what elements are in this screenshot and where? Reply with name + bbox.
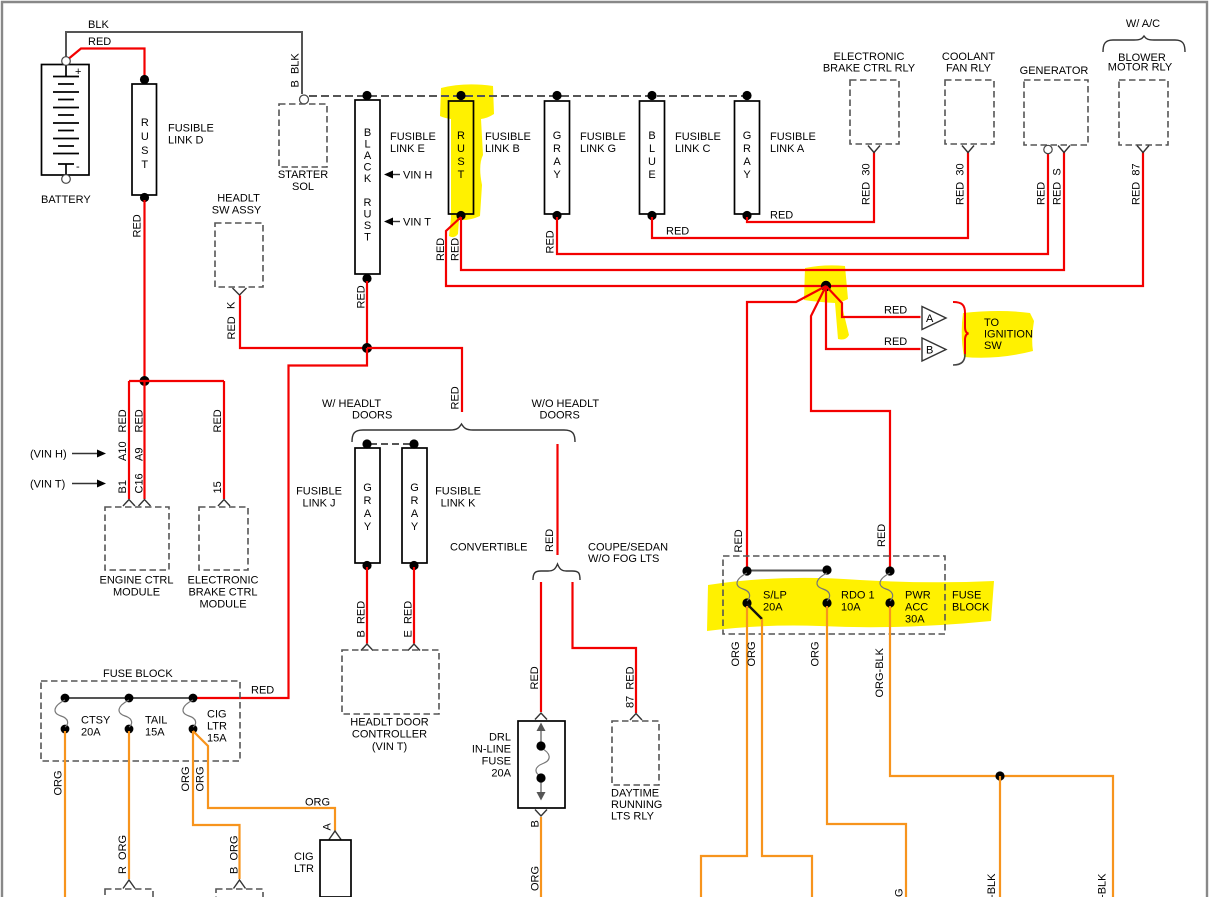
svg-text:FUSIBLE: FUSIBLE: [770, 131, 816, 143]
junction node on org-blk wire: [995, 771, 1004, 780]
svg-text:RED: RED: [134, 409, 146, 432]
svg-text:T: T: [364, 232, 371, 244]
pin B of headlt door controller: [361, 644, 373, 651]
wire RED link B to generator pin: [450, 153, 1065, 271]
svg-text:Y: Y: [411, 521, 419, 533]
wire BLK battery to starter sol: [66, 19, 302, 94]
svg-text:RED: RED: [529, 666, 541, 689]
node top of link A: [742, 91, 751, 100]
svg-text:(VIN T): (VIN T): [30, 479, 65, 491]
svg-text:RED: RED: [876, 524, 888, 547]
pin B lower box: [234, 880, 246, 889]
svg-text:RED 30: RED 30: [955, 163, 967, 205]
svg-text:A: A: [926, 313, 934, 325]
svg-text:RED: RED: [770, 210, 793, 222]
svg-text:B1: B1: [117, 480, 129, 493]
node bottom of link J: [362, 561, 371, 570]
svg-text:T: T: [141, 159, 148, 171]
svg-text:A: A: [553, 156, 561, 168]
svg-text:RED: RED: [212, 409, 224, 432]
wire RED junction to connector B: [826, 286, 921, 349]
svg-text:Y: Y: [743, 169, 751, 181]
svg-text:COUPE/SEDAN: COUPE/SEDAN: [588, 542, 668, 554]
svg-text:B: B: [926, 345, 933, 357]
main junction node: [821, 281, 831, 291]
dashed box below cig ltr wire: [216, 889, 263, 897]
highlighter mark over TO IGNITION SW: [962, 311, 1034, 358]
black jumper at S/LP output: [747, 604, 762, 619]
node top of link G: [552, 91, 561, 100]
headlt doors option brace: [322, 398, 599, 442]
wire RED link A to electronic brake ctrl rly: [747, 153, 874, 223]
pin A10 B1 of engine ctrl module: [117, 409, 135, 506]
svg-text:BLOCK: BLOCK: [952, 602, 990, 614]
svg-text:DRL: DRL: [489, 732, 511, 744]
node top of link B: [456, 91, 465, 100]
battery: [41, 65, 91, 207]
svg-text:LINK J: LINK J: [302, 498, 335, 510]
svg-text:15A: 15A: [207, 733, 227, 745]
svg-text:ORG: ORG: [180, 766, 192, 791]
wire ORG S/LP jumper down right: [746, 619, 812, 897]
svg-text:STARTER: STARTER: [278, 169, 328, 181]
svg-text:E RED: E RED: [403, 601, 415, 638]
svg-text:20A: 20A: [763, 602, 783, 614]
svg-text:ORG: ORG: [730, 641, 742, 666]
svg-text:G: G: [363, 482, 372, 494]
node top of link E: [362, 91, 371, 100]
svg-text:RED: RED: [117, 409, 129, 432]
svg-text:HEADLT: HEADLT: [217, 193, 260, 205]
W/ A/C brace: [1103, 18, 1185, 52]
wire RED link K to headlt door controller: [403, 567, 415, 644]
wire RED link G to generator terminal: [545, 154, 1049, 254]
svg-text:ORG: ORG: [894, 888, 906, 897]
svg-text:VIN H: VIN H: [403, 170, 432, 182]
VIN H arrow left: [30, 449, 106, 461]
wire ORG CIG LTR fuse to cig ltr: [193, 731, 335, 831]
svg-text:CONVERTIBLE: CONVERTIBLE: [450, 542, 527, 554]
svg-text:R: R: [457, 130, 465, 142]
svg-text:ACC: ACC: [905, 602, 928, 614]
headlt door controller: [342, 650, 439, 753]
highlighter mark over fusible link B: [440, 84, 494, 237]
wire RED link E bottom to junction: [356, 281, 368, 348]
node top of link C: [647, 91, 656, 100]
wire RED junction to connector A: [826, 286, 921, 317]
svg-text:FUSIBLE: FUSIBLE: [296, 486, 342, 498]
pin A9 C16 of engine ctrl module: [134, 409, 151, 506]
node bottom of fusible link D: [140, 193, 149, 202]
svg-text:R: R: [743, 143, 751, 155]
cig ltr: [294, 840, 351, 897]
svg-text:R: R: [141, 117, 149, 129]
node bottom of link C: [647, 211, 656, 220]
svg-text:RED S: RED S: [1052, 168, 1064, 205]
svg-text:B: B: [648, 130, 655, 142]
wire ORG CIG LTR fuse to pin B: [180, 731, 240, 879]
svg-text:IN-LINE: IN-LINE: [472, 744, 511, 756]
svg-text:TO: TO: [984, 317, 1000, 329]
wire ORG drl fuse down: [530, 817, 542, 897]
svg-text:A: A: [322, 823, 334, 831]
electronic brake ctrl rly: [823, 51, 916, 144]
VIN T arrow left: [30, 479, 106, 491]
fusible link A: [735, 101, 816, 214]
svg-text:20A: 20A: [81, 727, 101, 739]
svg-text:S/LP: S/LP: [763, 590, 787, 602]
svg-text:BATTERY: BATTERY: [41, 194, 91, 206]
svg-text:FUSIBLE: FUSIBLE: [168, 123, 214, 135]
svg-text:W/O HEADLT: W/O HEADLT: [532, 398, 600, 410]
svg-text:10A: 10A: [841, 602, 861, 614]
wire RED junction to PWR ACC fuse: [811, 286, 890, 568]
svg-text:SOL: SOL: [292, 181, 314, 193]
svg-text:RED: RED: [356, 285, 368, 308]
wire ORG TAIL down: [117, 731, 129, 879]
headlt sw assy: [212, 193, 263, 288]
svg-text:S: S: [141, 145, 148, 157]
fuse S/LP 20A: [737, 566, 787, 613]
svg-text:FUSIBLE: FUSIBLE: [580, 131, 626, 143]
svg-text:ORG: ORG: [810, 641, 822, 666]
svg-text:RED 30: RED 30: [861, 163, 873, 205]
svg-text:CONTROLLER: CONTROLLER: [352, 729, 427, 741]
wire RED coupe branch to daytime running lts rly: [573, 582, 637, 713]
svg-text:DOORS: DOORS: [540, 410, 580, 422]
svg-text:RED 87: RED 87: [1131, 163, 1143, 205]
svg-text:E: E: [648, 169, 655, 181]
svg-text:ORG: ORG: [195, 766, 207, 791]
svg-text:RED: RED: [132, 214, 144, 237]
svg-text:DOORS: DOORS: [352, 410, 392, 422]
svg-text:R: R: [553, 143, 561, 155]
svg-text:B BLK: B BLK: [290, 53, 302, 88]
generator terminal circle: [1036, 145, 1053, 205]
fuse block lower right: [723, 556, 990, 634]
svg-text:LINK B: LINK B: [485, 143, 520, 155]
junction node near link E: [362, 343, 372, 353]
svg-text:ORG: ORG: [530, 866, 542, 891]
dashed box below tail wire: [105, 889, 153, 897]
svg-text:FUSE: FUSE: [482, 756, 511, 768]
fuse RDO 1 10A: [817, 565, 875, 613]
fuse PWR ACC 30A: [880, 566, 931, 625]
svg-text:VIN T: VIN T: [403, 217, 431, 229]
svg-text:A: A: [743, 156, 751, 168]
svg-text:DAYTIME: DAYTIME: [611, 788, 659, 800]
node bottom of link A: [742, 211, 751, 220]
svg-text:15A: 15A: [145, 727, 165, 739]
starter solenoid terminal circle: [300, 95, 309, 104]
wire RED junction down to lower fuse block: [197, 348, 367, 698]
svg-text:U: U: [648, 156, 656, 168]
svg-text:CIG: CIG: [207, 709, 227, 721]
svg-text:15: 15: [212, 481, 224, 493]
fuse block lower left: [41, 668, 274, 761]
node bottom of link G: [552, 211, 561, 220]
svg-text:MODULE: MODULE: [113, 587, 160, 599]
pin R lower left box: [123, 880, 135, 889]
svg-text:RED: RED: [88, 36, 111, 48]
pin 87 of blower motor rly: [1131, 146, 1150, 206]
svg-text:RDO 1: RDO 1: [841, 590, 875, 602]
wire RED link C to coolant fan rly: [652, 153, 968, 239]
svg-text:RED: RED: [884, 305, 907, 317]
wire RED link J to headlt door controller: [356, 567, 368, 644]
svg-text:RED: RED: [435, 238, 447, 261]
node bottom of link B: [456, 211, 465, 220]
wire RED headlt sw assy to junction: [226, 296, 367, 349]
svg-text:20A: 20A: [491, 768, 511, 780]
svg-text:CTSY: CTSY: [81, 715, 111, 727]
svg-text:RED: RED: [450, 238, 462, 261]
svg-text:CIG: CIG: [294, 851, 314, 863]
svg-text:W/O FOG LTS: W/O FOG LTS: [588, 553, 659, 565]
bus bar in fuse block: [65, 697, 193, 699]
wire ORG CTSY down: [53, 731, 66, 897]
svg-text:BLK: BLK: [88, 19, 109, 31]
svg-text:FUSE: FUSE: [952, 590, 981, 602]
svg-text:L: L: [649, 143, 655, 155]
svg-text:RED: RED: [450, 386, 462, 409]
fusible link G: [545, 101, 626, 214]
svg-text:PWR: PWR: [905, 590, 931, 602]
svg-text:HEADLT DOOR: HEADLT DOOR: [350, 717, 428, 729]
wire ORG S/LP down left: [701, 606, 747, 897]
svg-text:L: L: [364, 139, 370, 151]
wire RED link B to blower motor rly: [435, 153, 1143, 287]
fuse CTSY 20A: [55, 694, 111, 739]
svg-text:FUSIBLE: FUSIBLE: [675, 131, 721, 143]
svg-text:SW ASSY: SW ASSY: [212, 205, 262, 217]
svg-text:RED: RED: [884, 336, 907, 348]
wire ORG-BLK junction down: [986, 776, 1000, 897]
fusible link E: [355, 100, 436, 274]
label TO IGNITION SW: [984, 317, 1033, 352]
svg-text:MOTOR RLY: MOTOR RLY: [1108, 62, 1173, 74]
svg-text:-: -: [76, 161, 80, 173]
svg-text:LTR: LTR: [207, 721, 227, 733]
node top of drl fuse element: [536, 741, 545, 750]
svg-text:TAIL: TAIL: [145, 715, 167, 727]
svg-text:FUSE BLOCK: FUSE BLOCK: [103, 668, 173, 680]
battery positive terminal: [62, 57, 71, 66]
wire RED link D down to junction: [132, 200, 145, 381]
svg-text:LTS RLY: LTS RLY: [611, 811, 655, 823]
svg-text:A9: A9: [134, 448, 146, 461]
svg-text:ENGINE CTRL: ENGINE CTRL: [100, 575, 174, 587]
pin E of headlt door controller: [408, 644, 420, 651]
svg-text:LINK D: LINK D: [168, 135, 204, 147]
convertible option brace: [450, 542, 668, 581]
svg-text:LTR: LTR: [294, 863, 314, 875]
connector B to ignition sw: [922, 338, 946, 361]
connector A to ignition sw: [922, 307, 946, 330]
svg-text:K: K: [226, 301, 238, 309]
svg-text:LINK G: LINK G: [580, 143, 616, 155]
fusible link B: [449, 101, 531, 214]
wire RED junction bar to module pins: [129, 381, 224, 499]
svg-text:(VIN H): (VIN H): [30, 449, 67, 461]
pin 15 of electronic brake ctrl module: [212, 409, 230, 506]
pin 87 of daytime running lts rly: [630, 714, 642, 721]
svg-text:(VIN T): (VIN T): [372, 741, 407, 753]
svg-text:S: S: [457, 156, 464, 168]
node top of link K: [409, 439, 418, 448]
svg-text:R: R: [411, 495, 419, 507]
fusible link D: [132, 84, 214, 195]
svg-text:B: B: [530, 820, 542, 827]
wire RED battery to fusible link D: [70, 36, 145, 78]
svg-text:RED: RED: [666, 226, 689, 238]
svg-text:RED: RED: [545, 230, 557, 253]
node bottom of link K: [409, 561, 418, 570]
generator: [1020, 65, 1089, 145]
svg-text:ORG: ORG: [746, 641, 758, 666]
VIN T arrow at link E: [384, 217, 431, 229]
svg-text:ORG-BLK: ORG-BLK: [986, 873, 998, 897]
junction node above engine ctrl module: [140, 376, 150, 386]
svg-text:RED: RED: [251, 685, 274, 697]
svg-text:W/ A/C: W/ A/C: [1126, 18, 1160, 30]
svg-text:ORG: ORG: [305, 797, 330, 809]
svg-text:RUNNING: RUNNING: [611, 799, 662, 811]
svg-text:U: U: [457, 143, 465, 155]
svg-text:A: A: [411, 508, 419, 520]
fusible link J: [296, 448, 380, 563]
wire ORG-BLK PWR ACC down: [874, 606, 1113, 897]
svg-text:B ORG: B ORG: [229, 835, 241, 874]
svg-text:C: C: [364, 162, 372, 174]
fusible link C: [640, 101, 721, 214]
svg-text:COOLANT: COOLANT: [942, 51, 995, 63]
dashed supply bus wire: [309, 95, 750, 97]
svg-text:BRAKE CTRL: BRAKE CTRL: [188, 587, 257, 599]
drl in-line fuse: [472, 713, 565, 816]
wire RED junction to S/LP fuse: [747, 286, 826, 568]
svg-text:R ORG: R ORG: [117, 835, 129, 874]
svg-text:SW: SW: [984, 340, 1002, 352]
svg-text:A: A: [364, 508, 372, 520]
svg-text:G: G: [743, 130, 752, 142]
svg-text:RED: RED: [1036, 182, 1048, 205]
svg-text:RED: RED: [226, 316, 238, 339]
battery negative terminal: [62, 175, 71, 184]
blower motor rly: [1108, 52, 1173, 145]
starter sol: [278, 104, 328, 193]
highlighter mark over wire junction to ignition: [804, 265, 849, 339]
svg-text:LINK A: LINK A: [770, 143, 805, 155]
svg-text:Y: Y: [364, 521, 372, 533]
svg-text:LINK C: LINK C: [675, 143, 711, 155]
svg-text:FUSIBLE: FUSIBLE: [390, 131, 436, 143]
dashed link between link J and link K: [370, 443, 411, 445]
node top of link J: [362, 439, 371, 448]
svg-text:ELECTRONIC: ELECTRONIC: [188, 575, 259, 587]
svg-text:FAN RLY: FAN RLY: [946, 63, 992, 75]
black tail of ignition brace: [953, 354, 965, 365]
wire RED convertible branch to drl fuse: [529, 582, 541, 712]
svg-text:30A: 30A: [905, 614, 925, 626]
fusible link K: [402, 448, 481, 563]
bus bar between S/LP and RDO1: [747, 570, 827, 572]
fuse TAIL 15A: [119, 694, 167, 739]
svg-text:A10: A10: [117, 441, 129, 461]
svg-text:T: T: [458, 169, 465, 181]
pin A of cig ltr: [322, 823, 342, 840]
svg-text:RED: RED: [544, 529, 556, 552]
svg-text:R: R: [364, 495, 372, 507]
pin 30 of coolant fan rly: [955, 146, 975, 206]
daytime running lts rly: [611, 721, 662, 823]
svg-text:U: U: [141, 131, 149, 143]
svg-text:S: S: [364, 220, 371, 232]
svg-text:GENERATOR: GENERATOR: [1020, 65, 1089, 77]
svg-text:B: B: [364, 127, 371, 139]
wire RED w/o headlt doors down: [544, 444, 558, 555]
svg-text:R: R: [364, 197, 372, 209]
svg-text:K: K: [364, 173, 372, 185]
pin K of headlt sw assy: [226, 288, 247, 309]
node top of fusible link D: [140, 75, 149, 84]
svg-text:MODULE: MODULE: [199, 599, 246, 611]
svg-text:BRAKE CTRL RLY: BRAKE CTRL RLY: [823, 63, 916, 75]
svg-text:G: G: [410, 482, 419, 494]
svg-text:ELECTRONIC: ELECTRONIC: [834, 51, 905, 63]
wire ORG RDO 1 down: [810, 606, 907, 897]
svg-text:IGNITION: IGNITION: [984, 329, 1033, 341]
red brace to ignition sw: [953, 302, 969, 354]
svg-text:LINK E: LINK E: [390, 143, 425, 155]
svg-text:G: G: [553, 130, 562, 142]
svg-text:FUSIBLE: FUSIBLE: [435, 486, 481, 498]
wire RED junction right to headlt doors brace: [367, 348, 462, 412]
svg-text:C16: C16: [134, 473, 146, 493]
highlighter mark over fuse block row: [707, 578, 994, 631]
VIN H arrow at link E: [384, 170, 432, 182]
svg-text:ORG-BLK: ORG-BLK: [874, 647, 886, 697]
pin S of generator: [1052, 146, 1071, 206]
node bottom of drl fuse element: [536, 773, 545, 782]
fuse CIG LTR 15A: [183, 694, 227, 745]
svg-text:Y: Y: [553, 169, 561, 181]
svg-text:LINK K: LINK K: [441, 498, 477, 510]
pin 30 of electronic brake ctrl rly: [861, 146, 881, 206]
svg-text:W/ HEADLT: W/ HEADLT: [322, 398, 381, 410]
node bottom of link E: [362, 274, 371, 283]
svg-text:U: U: [364, 209, 372, 221]
svg-text:+: +: [75, 66, 81, 78]
svg-text:ORG-BLK: ORG-BLK: [1097, 873, 1109, 897]
electronic brake ctrl module: [188, 507, 259, 611]
svg-text:RED: RED: [733, 529, 745, 552]
svg-text:A: A: [364, 150, 372, 162]
svg-text:FUSIBLE: FUSIBLE: [485, 131, 531, 143]
coolant fan rly: [942, 51, 995, 144]
svg-text:ORG: ORG: [53, 770, 65, 795]
svg-text:B RED: B RED: [356, 601, 368, 638]
svg-text:87 RED: 87 RED: [625, 666, 637, 708]
engine ctrl module: [100, 507, 174, 599]
